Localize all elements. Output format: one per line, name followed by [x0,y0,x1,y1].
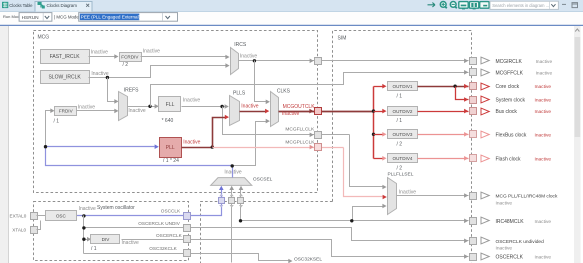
svg-text:Inactive: Inactive [536,70,553,76]
svg-text:OSC32KSEL: OSC32KSEL [294,257,322,263]
pad UNDIV on sysosc edge [184,225,191,232]
pad MCGOUTCLK on MCG edge [315,108,322,115]
MCG module dashed box [34,31,318,193]
mux IREFS [119,92,128,121]
mux CLKS [271,92,279,127]
wire PLLS out to CLKS (active red) [240,111,266,113]
svg-text:MCG PLL/FLL/IRC48M clock: MCG PLL/FLL/IRC48M clock [496,194,558,200]
svg-text:/ 1: / 1 [397,118,403,124]
pad MCG PLL/FLL clock [470,193,477,200]
svg-text:Inactive: Inactive [128,108,145,114]
pad MCGPLLCLK on MCG edge [315,144,322,151]
svg-text:MCGPLLCLK: MCGPLLCLK [285,140,315,146]
svg-text:Flash clock: Flash clock [496,156,522,162]
open arrow Flash clock [481,155,489,162]
wire System clock branch [456,87,469,100]
wire FLL out to PLLS [182,106,226,108]
wire IRC48M input into OSCSEL [240,190,242,221]
pad Core clock [470,83,477,90]
svg-text:MCGFLLCLK: MCGFLLCLK [285,127,315,133]
svg-text:MCG: MCG [38,34,50,40]
wire FCRDIV to IRCS [141,56,227,58]
svg-text:Inactive: Inactive [535,132,552,138]
junction core/system branch [453,85,456,88]
svg-text:MCGIRCLK: MCGIRCLK [496,59,523,65]
wire OSCERCLK UNDIV row [84,228,469,241]
svg-text:Inactive: Inactive [536,59,553,65]
mux PLLS [230,96,240,126]
svg-text:MCGOUTCLK: MCGOUTCLK [283,104,316,110]
svg-text:/ 1: / 1 [91,246,97,252]
block OUTDIV2 [388,107,418,116]
wire IRC48M branch into PLLFLLSEL [353,207,383,221]
wire into OUTDIV1 [374,86,383,88]
monitor icon 2 [469,2,478,9]
wire OSCSEL output blue to PLL [46,147,233,178]
wire MCGFLLCLK route [223,107,350,135]
wire RTC input into OSCSEL [231,190,233,263]
wire OSCERCLK row [122,240,469,257]
wire into OUTDIV3 [374,134,383,136]
wire FRDIV input [46,111,52,147]
svg-text:IREFS: IREFS [124,87,139,93]
svg-text:Clocks Diagram: Clocks Diagram [47,3,78,8]
right scrollbar [574,26,581,263]
svg-text:Inactive: Inactive [399,189,416,195]
block DIV [91,235,120,244]
wire FRDIV out to IREFS [77,110,116,112]
open arrow MCGIRCLK [481,57,489,64]
wire MCGPLLCLK pink route [213,147,344,149]
combo Run Mode HSRUN [19,13,52,22]
wire OUTDIV4 out Flash clock [418,158,469,160]
svg-text:OSCCLK: OSCCLK [161,208,181,213]
SIM module dashed box [333,31,472,263]
tab Clocks Table [2,2,8,8]
svg-text:IRCS: IRCS [234,42,247,48]
pad OSCERCLK on SIM edge [470,254,477,261]
svg-text:Inactive: Inactive [496,200,513,206]
svg-text:FLL: FLL [166,102,175,108]
wire OUTDIV1 out Core clock [418,86,469,88]
svg-text:FlexBus clock: FlexBus clock [496,132,527,138]
left gutter [0,26,9,263]
svg-text:FRDIV: FRDIV [59,109,74,114]
pad System clock [470,97,477,104]
svg-text:PLL: PLL [166,145,175,151]
svg-text:SIM: SIM [338,35,347,41]
svg-text:System oscillator: System oscillator [97,205,135,211]
svg-text:EXTAL0: EXTAL0 [10,214,27,219]
pad Bus clock [470,108,477,115]
svg-text:OUTDIV1: OUTDIV1 [393,84,413,89]
wire OUTDIV3 out FlexBus clock [418,134,469,136]
junction IREFS out [148,105,151,108]
tab Clocks Diagram (selected) [35,2,92,12]
wire MCGFLLCLK drop to PLLFLLSEL [350,135,383,187]
svg-text:OSC: OSC [56,213,67,218]
wire into OUTDIV4 [374,158,383,160]
svg-text:Inactive: Inactive [282,111,299,117]
block OUTDIV1 [388,82,418,91]
svg-text:PLLFLLSEL: PLLFLLSEL [388,172,414,178]
toolbar icons right [428,3,436,7]
svg-text:System clock: System clock [496,98,526,104]
wire PLL out up to PLLS [213,118,226,148]
svg-text:MCGFFCLK: MCGFFCLK [496,70,524,76]
svg-text:Inactive: Inactive [78,104,95,110]
svg-text:Inactive: Inactive [91,49,108,55]
junction slow irclk [106,76,109,79]
pad IRC48MCLK on SIM edge [470,218,477,225]
svg-text:Inactive: Inactive [183,97,200,103]
block FCRDIV [120,53,142,62]
mux OSC32KSEL arrow and label [288,259,292,263]
pad MCGFFCLK on SIM edge [470,69,477,76]
wire EXTAL0 to OSC [37,215,46,217]
wire into OUTDIV2 [374,111,383,113]
svg-text:IRC48MCLK: IRC48MCLK [496,219,525,225]
wire IRCS output MCGIRCLK [239,60,469,62]
junction OSC out [82,214,85,217]
svg-text:OSCERCLK undivided: OSCERCLK undivided [496,239,545,245]
pad OSCCLK on sysosc edge [184,213,191,220]
open arrow MCG PLL/FLL/IRC48M clock [481,192,489,199]
wire blue into PLL [46,146,155,148]
wire OSC branch down [83,216,85,254]
svg-text:/ 2: / 2 [397,165,403,171]
svg-text:XTAL0: XTAL0 [12,228,26,233]
svg-text:OUTDIV4: OUTDIV4 [393,156,413,161]
svg-text:Bus clock: Bus clock [496,109,518,115]
System oscillator dashed box [34,202,189,261]
open arrow OSCERCLK undivided [481,237,489,244]
block FAST_IRCLK [41,50,90,64]
divider under toolbar [0,24,583,26]
toolbar row [0,12,583,25]
svg-text:/ 1: / 1 [54,119,60,125]
wire XTAL0 to OSC [37,221,41,230]
svg-text:| MCG Mode: | MCG Mode [54,14,79,19]
pad FlexBus clock [470,131,477,138]
pad MCGFLLCLK on MCG edge [315,132,322,139]
svg-text:Core clock: Core clock [496,84,520,90]
svg-text:PEE (PLL Engaged External): PEE (PLL Engaged External) [81,15,141,20]
svg-text:Inactive: Inactive [535,98,552,104]
svg-text:/ 1: / 1 [397,93,403,99]
open arrow Bus clock [481,108,489,115]
svg-text:* 640: * 640 [162,118,174,124]
wire OUTDIV2 out Bus clock [418,111,469,113]
svg-text:OSC32KCLK: OSC32KCLK [149,246,177,251]
svg-text:/ 2: / 2 [123,62,129,68]
svg-text:Inactive: Inactive [496,246,513,252]
svg-text:OSCERCLK UNDIV: OSCERCLK UNDIV [138,221,181,226]
svg-text:OSCSEL: OSCSEL [253,176,273,182]
open arrow FlexBus clock [481,131,489,138]
block FRDIV [55,107,77,116]
mux IRCS [231,48,239,75]
wire OSCCLK blue into OSCSEL [77,190,222,216]
wire into DIV block [84,239,89,241]
open arrow IRC48MCLK [481,217,489,224]
block PLL (highlighted) [160,138,182,158]
junction FLL out [220,105,223,108]
svg-text:Inactive: Inactive [535,109,552,115]
pad RTC on SIM bottom region edge [229,198,235,204]
mux OSCSEL [211,178,252,186]
pad OSCERCLK on sysosc edge [184,236,191,243]
svg-text:OUTDIV3: OUTDIV3 [393,132,413,137]
svg-text:Inactive: Inactive [535,219,552,225]
svg-text:Inactive: Inactive [183,139,200,145]
monitor icon 1 [459,2,468,9]
svg-text:Inactive: Inactive [241,104,258,110]
wire MCGOUT trunk vertical [373,87,375,159]
svg-text:Inactive: Inactive [122,240,139,246]
pad Flash clock [470,155,477,162]
open arrow Core clock [481,83,489,90]
wire FAST_IRCLK to FCRDIV [89,56,116,58]
svg-text:PLLS: PLLS [233,91,246,97]
wire slow branch to IREFS [108,78,116,102]
wire MCGFFCLK route [151,73,469,107]
svg-text:Inactive: Inactive [224,170,241,176]
junction blue pll input [44,145,47,148]
svg-text:OUTDIV2: OUTDIV2 [393,109,413,114]
wire OSC32KCLK row [84,254,289,261]
search combo [490,1,558,9]
svg-text:FAST_IRCLK: FAST_IRCLK [50,54,81,60]
svg-text:Search elements in diagram ...: Search elements in diagram ... [492,3,549,8]
pad MCGIRCLK on MCG edge [315,58,322,65]
tab bar background [0,0,583,12]
svg-text:Inactive: Inactive [535,156,552,162]
monitor icon 3 [480,2,489,9]
open arrow System clock [481,96,489,103]
svg-text:HSRUN: HSRUN [22,15,40,21]
pad OSC32KCLK on sysosc edge [184,250,191,257]
pad OSCERCLK undivided on SIM edge [470,238,477,245]
svg-text:/ 1 * 24: / 1 * 24 [163,158,179,164]
junction blue oscsel out [231,164,234,167]
combo MCG Mode PEE [79,13,178,22]
svg-text:Inactive: Inactive [535,255,552,261]
wire IREFS out to FLL [128,106,156,108]
block SLOW_IRCLK [41,71,90,84]
wire PLLFLLSEL out [397,195,469,197]
pad MCGIRCLK on SIM edge [470,58,477,65]
block FLL [159,97,181,112]
svg-text:DIV: DIV [102,237,111,242]
wire SLOW_IRCLK out [89,66,227,78]
svg-text:Inactive: Inactive [79,206,96,212]
svg-text:Inactive: Inactive [143,48,160,54]
svg-text:OSCERCLK: OSCERCLK [496,255,524,261]
svg-text:FCRDIV: FCRDIV [121,55,139,60]
junction PLL out [211,145,214,148]
pad IRC48M on SIM bottom region edge [238,198,244,204]
svg-text:Clocks Table: Clocks Table [9,3,33,8]
svg-text:/ 2: / 2 [397,141,403,147]
junction trunk outdiv2 [372,109,375,112]
svg-text:SLOW_IRCLK: SLOW_IRCLK [48,75,81,81]
block OUTDIV3 [388,130,418,139]
wire IRCS branch to CLKS [255,61,267,102]
svg-text:OSCERCLK: OSCERCLK [156,233,183,238]
junction trunk outdiv3 [372,133,375,136]
block OUTDIV4 [388,154,418,163]
wire CLKS bottom input from external [233,122,267,166]
svg-text:Inactive: Inactive [535,84,552,90]
wire MCGPLLCLK drop to PLLFLLSEL [344,148,383,197]
open arrow OSCERCLK [481,253,489,260]
block OSC [46,211,77,221]
open arrow MCGFFCLK [481,69,489,76]
pad OSCCLK on SIM bottom region edge [219,198,225,204]
wire IRC48MCLK row [241,220,469,222]
wire PLL out maroon [182,147,213,149]
wire CLKS out MCGOUTCLK [279,111,374,113]
svg-text:CLKS: CLKS [277,89,291,95]
svg-text:Inactive: Inactive [240,53,257,59]
